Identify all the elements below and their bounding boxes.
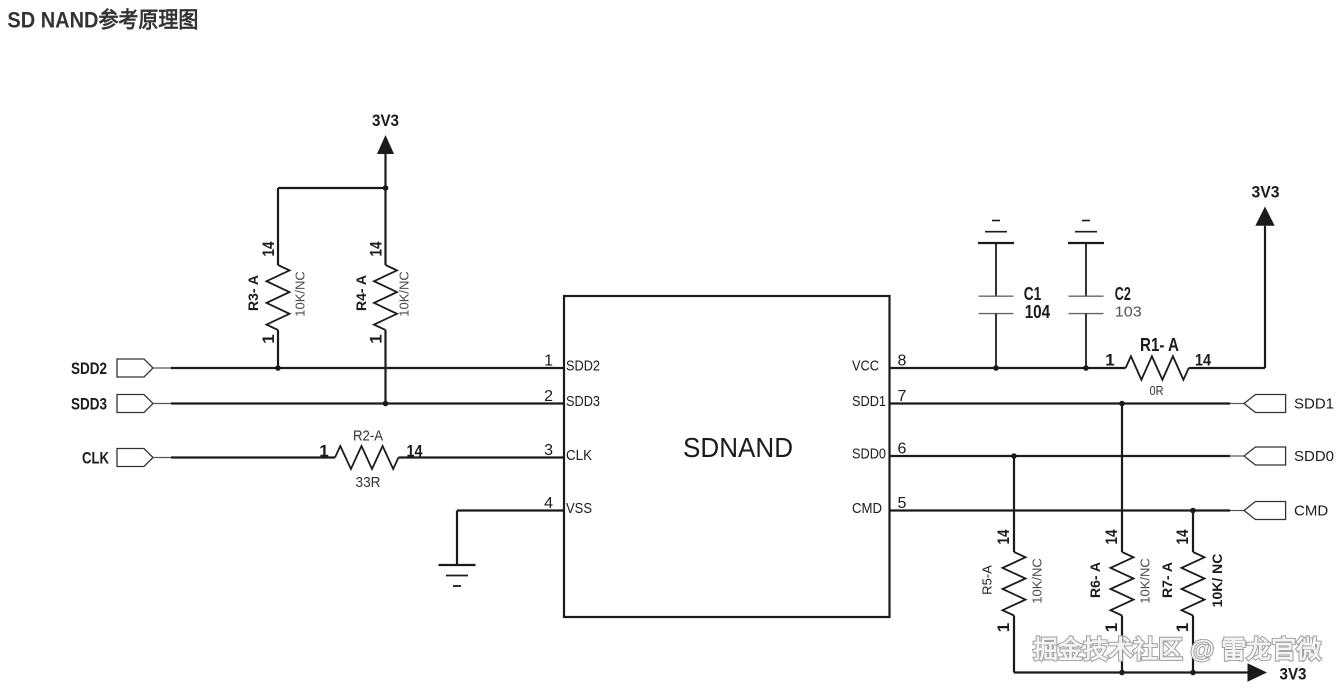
svg-text:SD NAND参考原理图: SD NAND参考原理图 — [7, 7, 198, 32]
svg-text:3V3: 3V3 — [1280, 665, 1307, 684]
connector / port CMD (right) — [1244, 502, 1286, 520]
power symbol 3V3 (top left) — [377, 135, 394, 188]
wire 3V3 riser (top right) — [1264, 226, 1266, 368]
svg-text:14: 14 — [1102, 529, 1121, 544]
svg-text:33R: 33R — [356, 474, 381, 491]
connector / port SDD0 (right) — [1244, 447, 1286, 465]
svg-text:VSS: VSS — [566, 501, 592, 517]
resistor R4-A (pull-up on SDD3) — [374, 188, 397, 404]
svg-text:1: 1 — [367, 334, 386, 343]
wire net CMD: chip pin 5 to connector — [890, 509, 1231, 511]
junction: CMD / R7 — [1190, 508, 1196, 514]
power symbol 3V3 (bottom right, pointing right) — [1248, 663, 1268, 681]
svg-text:10K/NC: 10K/NC — [397, 271, 412, 317]
wire net SDD2: connector to chip pin 1 — [171, 367, 564, 369]
svg-text:R6- A: R6- A — [1087, 562, 1103, 598]
wire VSS vertical drop — [456, 511, 458, 566]
resistor R3-A (pull-up on SDD2) — [267, 188, 290, 368]
wire SDD1 connector stub — [1230, 403, 1244, 405]
svg-text:CLK: CLK — [566, 448, 592, 464]
wire net SDD0: chip pin 6 to connector — [890, 455, 1231, 457]
wire 3V3 jog to R3 — [278, 187, 386, 189]
svg-text:10K/ NC: 10K/ NC — [1209, 554, 1225, 608]
svg-text:103: 103 — [1115, 304, 1142, 321]
connector / port CLK (left) — [117, 449, 153, 467]
wire SDD3 connector stub — [153, 403, 171, 405]
ground symbol above C2 — [1068, 221, 1104, 244]
junction: R6 to bottom rail — [1119, 670, 1125, 676]
wire SDD0 connector stub — [1230, 455, 1244, 457]
resistor R2-A body — [335, 446, 399, 469]
svg-text:C1: C1 — [1024, 284, 1041, 304]
svg-text:14: 14 — [259, 241, 278, 256]
junction: R4 to SDD3 net — [383, 401, 389, 407]
svg-text:SDD3: SDD3 — [71, 395, 107, 414]
svg-text:1: 1 — [259, 334, 278, 343]
capacitor C2 — [1069, 243, 1104, 368]
svg-text:SDD1: SDD1 — [1294, 396, 1334, 413]
svg-text:掘金技术社区 @ 雷龙官微: 掘金技术社区 @ 雷龙官微 — [1033, 635, 1321, 664]
svg-text:R7- A: R7- A — [1159, 562, 1175, 598]
junction: C1 to VCC — [993, 365, 999, 371]
svg-text:SDD0: SDD0 — [852, 447, 886, 463]
wire net SDD1: chip pin 7 to connector — [890, 402, 1231, 404]
svg-text:VCC: VCC — [852, 359, 879, 375]
svg-text:SDD2: SDD2 — [71, 359, 107, 378]
svg-text:10K/NC: 10K/NC — [1030, 558, 1045, 604]
wire bottom 3V3 rail — [1014, 671, 1248, 673]
svg-text:10K/NC: 10K/NC — [1138, 558, 1153, 604]
resistor R5-A (on SDD0) — [1003, 456, 1026, 673]
svg-text:R5-A: R5-A — [980, 565, 995, 595]
wire SDD2 connector stub — [153, 367, 171, 369]
junction: SDD1 / R6 — [1119, 401, 1125, 407]
junction: C2 to VCC — [1083, 365, 1089, 371]
wire net CLK: resistor R2 pin 14 to chip pin 3 — [399, 456, 565, 458]
wire CMD connector stub — [1230, 510, 1244, 512]
svg-text:14: 14 — [1173, 529, 1192, 544]
svg-text:R3- A: R3- A — [245, 275, 261, 311]
wire net VCC: chip pin 8 to R1 pin 1 — [890, 367, 1126, 369]
svg-text:0R: 0R — [1150, 383, 1164, 398]
resistor R1-A body (0R) — [1126, 356, 1189, 380]
svg-text:SDD0: SDD0 — [1294, 448, 1334, 465]
svg-text:R2-A: R2-A — [353, 428, 383, 445]
svg-text:1: 1 — [1173, 623, 1192, 632]
svg-text:R4- A: R4- A — [353, 275, 369, 311]
ground symbol GND (VSS) — [439, 565, 476, 586]
wire R1 pin 14 to 3V3 riser — [1189, 367, 1265, 369]
wire net SDD3: connector to chip pin 2 — [171, 402, 564, 404]
svg-text:CMD: CMD — [852, 501, 882, 517]
svg-text:1: 1 — [994, 623, 1013, 632]
svg-text:CLK: CLK — [82, 449, 110, 468]
svg-text:1: 1 — [319, 441, 328, 460]
connector / port SDD1 (right) — [1244, 395, 1286, 413]
resistor R7-A (on CMD) — [1182, 511, 1205, 673]
svg-text:10K/NC: 10K/NC — [293, 271, 308, 317]
svg-text:SDD3: SDD3 — [566, 394, 600, 410]
wire net CLK: connector to resistor R2 pin 1 — [171, 456, 335, 458]
svg-text:104: 104 — [1025, 302, 1051, 322]
wire CLK connector stub — [153, 457, 171, 459]
svg-text:3V3: 3V3 — [372, 111, 399, 130]
power symbol 3V3 (top right) — [1255, 207, 1274, 226]
resistor R6-A (on SDD1) — [1111, 404, 1134, 673]
svg-text:14: 14 — [994, 529, 1013, 544]
junction: R3 to SDD2 net — [275, 365, 281, 371]
svg-text:CMD: CMD — [1294, 503, 1328, 520]
svg-text:3V3: 3V3 — [1252, 183, 1280, 202]
junction: 3V3 / R3 / R4 — [383, 185, 389, 191]
ground symbol above C1 — [978, 221, 1014, 244]
connector / port SDD2 (left) — [117, 359, 153, 377]
svg-text:14: 14 — [407, 441, 423, 460]
svg-text:R1- A: R1- A — [1140, 335, 1179, 355]
svg-text:1: 1 — [1105, 351, 1114, 370]
svg-text:14: 14 — [1195, 351, 1211, 370]
svg-text:C2: C2 — [1115, 284, 1131, 304]
svg-text:SDD2: SDD2 — [566, 359, 600, 375]
connector / port SDD3 (left) — [117, 395, 153, 413]
svg-text:SDNAND: SDNAND — [683, 432, 793, 463]
svg-text:SDD1: SDD1 — [852, 394, 886, 410]
svg-text:14: 14 — [367, 241, 386, 256]
wire net VSS: chip pin 4 to ground — [457, 509, 564, 511]
capacitor C1 — [979, 243, 1014, 368]
junction: SDD0 / R5 — [1011, 453, 1017, 459]
svg-text:1: 1 — [1102, 623, 1121, 632]
IC U1 SDNAND body — [564, 296, 890, 617]
junction: R7 to bottom rail — [1190, 670, 1196, 676]
